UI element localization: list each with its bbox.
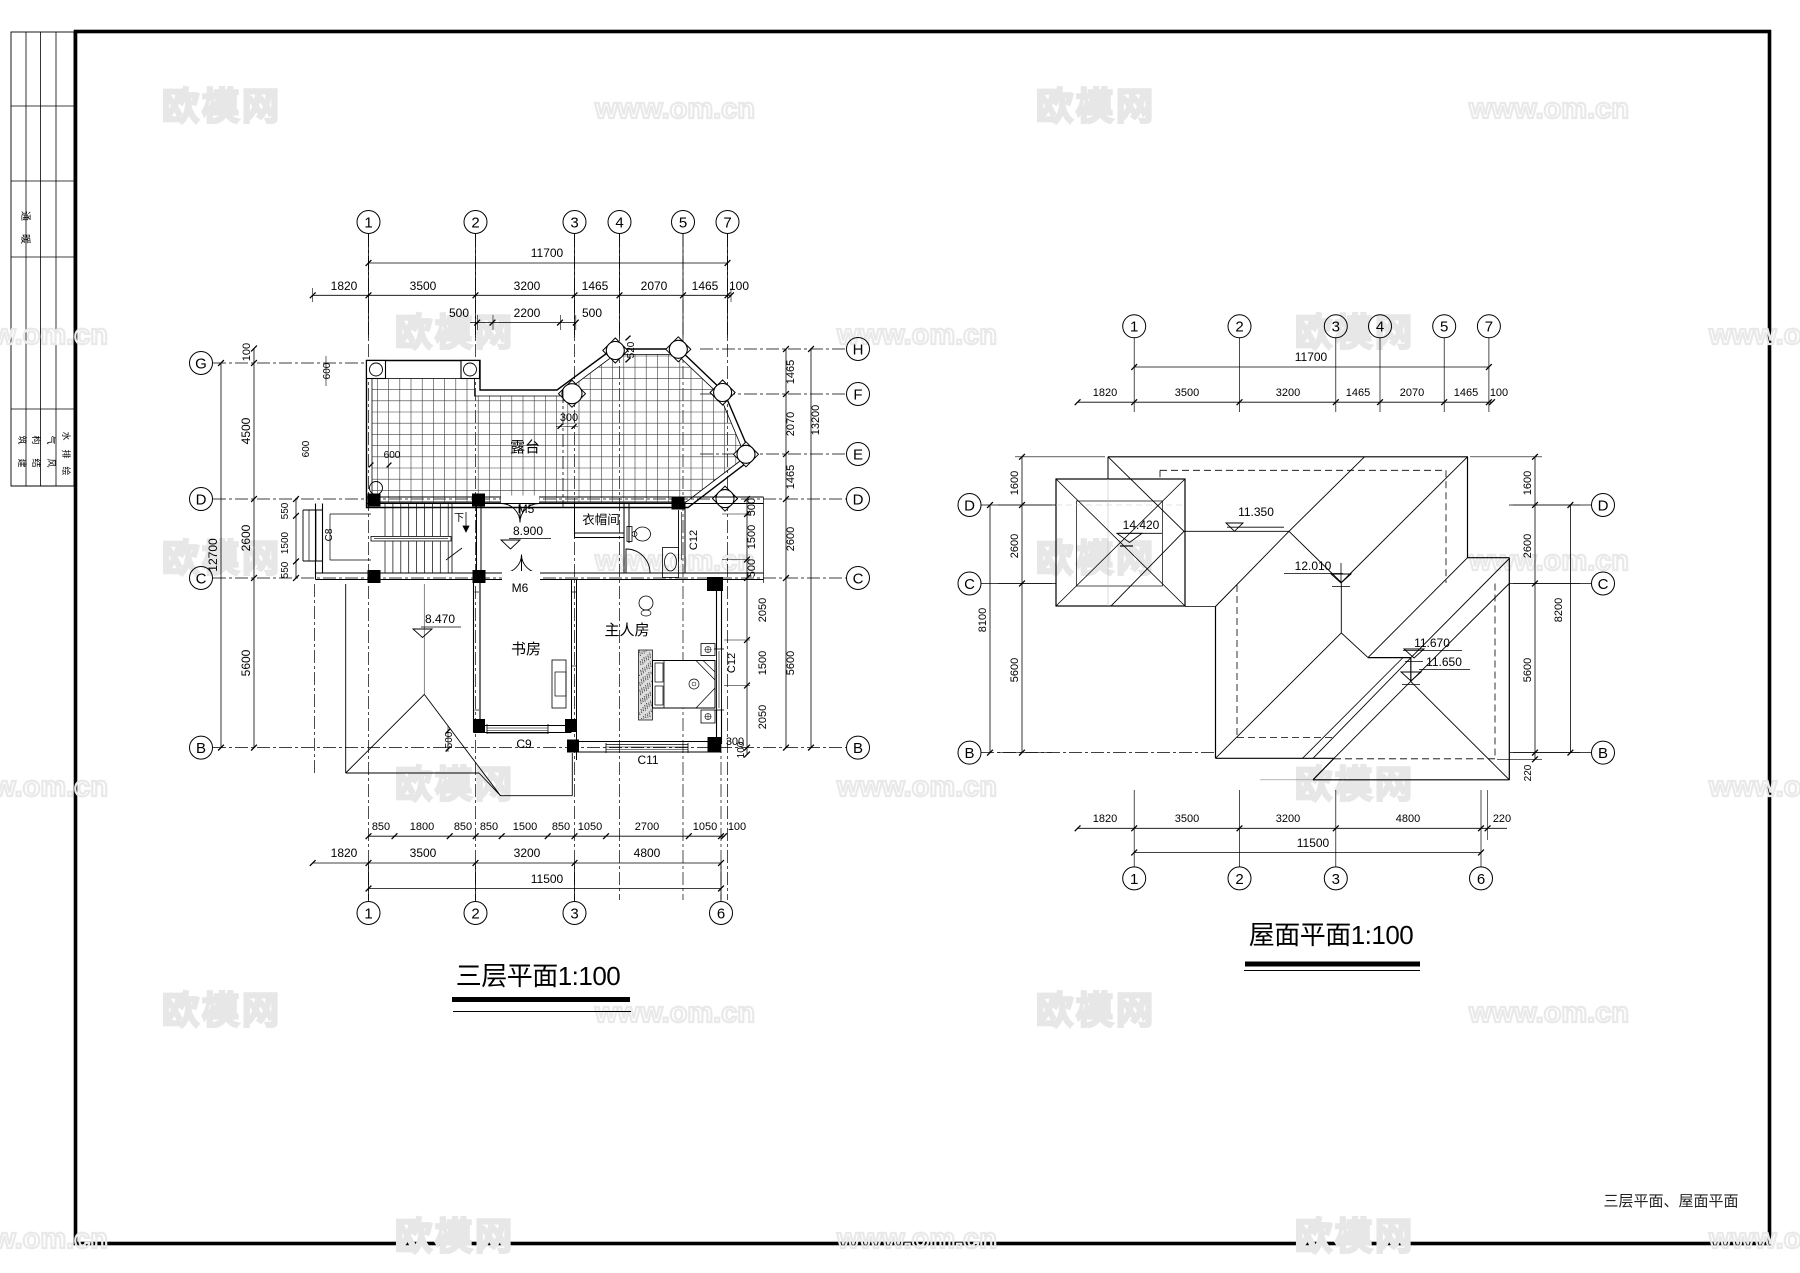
roof grid stub C right (1509, 583, 1591, 585)
bed corner flower (689, 679, 699, 689)
grid line C horizontal (213, 577, 846, 579)
svg-text:三层平面、屋面平面: 三层平面、屋面平面 (1603, 1193, 1738, 1210)
level 8.470 flag (413, 629, 432, 638)
roof mid hip top (1216, 531, 1290, 606)
svg-text:600: 600 (301, 440, 312, 457)
svg-text:欧模网: 欧模网 (1295, 1216, 1415, 1257)
roof grid bubble 2 top (1228, 315, 1251, 338)
roof grid bubble 1 bottom (1123, 867, 1146, 890)
roof dashed low bottom (1334, 758, 1495, 760)
svg-text:1: 1 (1130, 319, 1138, 336)
lower roof bottom eave lower (501, 795, 573, 797)
dim right mid line (785, 349, 787, 748)
grid line 5 vertical (682, 234, 684, 900)
svg-text:1820: 1820 (1093, 387, 1117, 399)
terrace corner post NW (367, 361, 386, 379)
roof dashed tower stub (1159, 470, 1161, 479)
svg-text:屋面平面1:100: 屋面平面1:100 (1249, 920, 1414, 950)
dim total 11700 line (369, 262, 728, 264)
svg-text:5600: 5600 (1009, 658, 1021, 682)
octagon column c (666, 337, 691, 362)
svg-text:2070: 2070 (1400, 387, 1424, 399)
svg-text:www.om.cn: www.om.cn (1708, 319, 1800, 351)
svg-text:2600: 2600 (1522, 534, 1534, 558)
roof dim right inner (1534, 457, 1536, 760)
svg-text:风: 风 (46, 458, 56, 467)
roof top eave (1108, 456, 1468, 458)
svg-text:3500: 3500 (410, 846, 437, 860)
grid line G horizontal (213, 362, 372, 364)
grid stems top left plan (368, 234, 370, 339)
svg-text:1465: 1465 (1454, 387, 1478, 399)
grid bubble F right (847, 383, 870, 406)
svg-text:欧模网: 欧模网 (1036, 86, 1156, 127)
bedroom window C12r (716, 649, 718, 710)
bathroom right wall (684, 504, 686, 574)
svg-text:1600: 1600 (1522, 471, 1534, 495)
dim left inner line (253, 348, 255, 748)
roof right edge lower (1508, 558, 1510, 584)
cloakroom walls (574, 504, 576, 538)
study left wall (473, 580, 475, 733)
title strip col line 3 (55, 32, 57, 486)
roof mid bottom eave (1216, 757, 1335, 759)
grid bubble 1 top (357, 211, 380, 234)
svg-text:4500: 4500 (239, 417, 253, 444)
title roof underline thick (1245, 962, 1420, 967)
roof grid stub B left (981, 752, 1215, 754)
svg-text:G: G (195, 355, 207, 372)
svg-text:C12: C12 (726, 653, 738, 673)
svg-text:绘: 绘 (61, 466, 72, 475)
svg-text:1: 1 (364, 905, 372, 922)
svg-text:100: 100 (241, 343, 253, 361)
svg-text:1050: 1050 (693, 821, 717, 833)
svg-text:3200: 3200 (1276, 813, 1300, 825)
svg-text:4: 4 (615, 214, 623, 231)
roof grid stub B right (1509, 752, 1591, 754)
octagon column a (559, 380, 586, 407)
roof grid bubble 4 top (1369, 315, 1392, 338)
grid line 1 vertical (368, 234, 370, 900)
svg-text:1600: 1600 (1009, 471, 1021, 495)
svg-text:主人房: 主人房 (604, 622, 649, 639)
svg-text:1500: 1500 (746, 525, 758, 549)
terrace step dash line (562, 390, 564, 507)
svg-text:筑: 筑 (17, 435, 28, 444)
roof step top (1468, 557, 1510, 559)
svg-text:气: 气 (46, 435, 57, 444)
svg-text:13200: 13200 (810, 405, 822, 436)
grid bubble 2 top (464, 211, 487, 234)
svg-text:3200: 3200 (1276, 387, 1300, 399)
svg-text:7: 7 (1485, 319, 1493, 336)
roof dim brow1 line (1078, 827, 1507, 829)
svg-text:550: 550 (280, 561, 291, 578)
svg-text:11.670: 11.670 (1414, 636, 1450, 650)
svg-text:220: 220 (1523, 764, 1534, 781)
stair flight risers upper (384, 504, 386, 536)
grid bubble C left (190, 567, 213, 590)
grid bubble 7 top (716, 211, 739, 234)
roof dim row2 line (1078, 401, 1492, 403)
svg-text:8100: 8100 (977, 608, 989, 632)
roof grid bubble C left (958, 572, 981, 595)
grid bubble 4 top (608, 211, 631, 234)
svg-text:1500: 1500 (280, 531, 291, 554)
bedroom dresser top (639, 596, 653, 610)
svg-text:水: 水 (61, 431, 72, 440)
svg-text:2600: 2600 (239, 524, 253, 551)
svg-text:M6: M6 (512, 581, 529, 595)
svg-text:欧模网: 欧模网 (1295, 312, 1415, 353)
svg-text:B: B (853, 740, 863, 757)
column D-3 (672, 497, 685, 510)
svg-text:通: 通 (19, 211, 31, 221)
grid line 3 vertical (574, 234, 576, 900)
svg-text:5: 5 (679, 214, 687, 231)
grid bubble 1 bottom (357, 902, 380, 925)
lower roof hip SE (424, 694, 500, 795)
roof dashed mid bottom (1237, 737, 1333, 739)
svg-text:C: C (1598, 576, 1609, 593)
svg-text:暖: 暖 (19, 234, 32, 244)
title strip bottom line (11, 485, 74, 487)
octagon column f (713, 486, 738, 511)
bathroom door arc (626, 549, 650, 573)
grid line B horizontal (213, 747, 846, 749)
roof right edge upper (1467, 457, 1469, 558)
roof grid stem 2 top (1239, 338, 1241, 412)
svg-text:1500: 1500 (513, 821, 537, 833)
svg-text:3: 3 (1332, 319, 1340, 336)
svg-text:B: B (1598, 745, 1608, 762)
svg-text:www.om.cn: www.om.cn (594, 545, 755, 577)
roof grid bubble 6 bottom (1470, 867, 1493, 890)
title left underline thick (452, 997, 630, 1002)
svg-text:8200: 8200 (1553, 598, 1565, 622)
bay outer line right (763, 497, 765, 583)
svg-text:6: 6 (1477, 871, 1485, 888)
bed inner line (663, 661, 665, 709)
column D-1 (368, 494, 381, 507)
svg-text:欧模网: 欧模网 (395, 764, 515, 805)
svg-text:C: C (196, 570, 207, 587)
svg-text:2600: 2600 (785, 527, 797, 551)
svg-text:1500: 1500 (757, 651, 769, 675)
roof apex hip SE (1411, 681, 1510, 779)
grid line 6 vertical (720, 740, 722, 900)
grid bubble B right (847, 736, 870, 759)
svg-text:www.om.cn: www.om.cn (594, 93, 755, 125)
lower roof left edge (345, 584, 347, 773)
bedroom right wall upper (716, 591, 718, 649)
grid bubble H right (847, 338, 870, 361)
roof grid stem 2 bottom (1239, 790, 1241, 867)
roof grid bubble 5 top (1433, 315, 1456, 338)
title strip row line 4 (11, 408, 74, 410)
wall C opening M6 gap (502, 571, 540, 581)
svg-text:4800: 4800 (1396, 813, 1420, 825)
roof gray under-eave left (1260, 779, 1313, 781)
bedroom right wall lower (716, 710, 718, 738)
roof hip ridge-left-up (1108, 457, 1184, 532)
study window C9 (487, 725, 548, 727)
level 8.900 flag (501, 540, 520, 549)
svg-text:www.om.cn: www.om.cn (836, 771, 997, 803)
bed blanket fold (696, 661, 715, 681)
svg-text:1: 1 (1130, 871, 1138, 888)
svg-text:2600: 2600 (1009, 534, 1021, 558)
roof grid bubble D right (1592, 494, 1615, 517)
svg-text:www.om.cn: www.om.cn (1708, 1223, 1800, 1255)
lower roof right edge (571, 753, 573, 796)
wall D row (367, 496, 764, 498)
stair inner wall line (330, 513, 371, 515)
lower roof bottom eave upper (346, 772, 479, 774)
svg-text:5600: 5600 (1522, 658, 1534, 682)
bedroom window C11 (606, 744, 688, 746)
svg-text:三层平面1:100: 三层平面1:100 (456, 961, 621, 991)
svg-text:600: 600 (384, 450, 401, 461)
roof grid stem 6 bottom (1480, 790, 1482, 867)
svg-text:H: H (853, 341, 864, 358)
svg-text:C11: C11 (637, 753, 658, 767)
roof mid left eave (1215, 607, 1217, 759)
column D-2 (472, 494, 485, 507)
title strip row line 1 (11, 105, 74, 107)
svg-text:11700: 11700 (531, 246, 564, 260)
roof grid bubble 2 bottom (1228, 867, 1251, 890)
title strip outline (11, 32, 74, 486)
bathroom window C12t (678, 510, 680, 562)
svg-text:排: 排 (61, 449, 72, 458)
grid line 2 vertical (475, 234, 477, 900)
study desk (552, 660, 566, 708)
roof right ext lines (1470, 456, 1542, 458)
stair room left wall (315, 504, 317, 580)
svg-text:1465: 1465 (692, 279, 719, 293)
svg-text:100: 100 (729, 279, 749, 293)
roof tower diagonal a (1056, 479, 1185, 606)
grid line D horizontal (213, 498, 846, 500)
dim left total 12700 line (220, 363, 222, 748)
svg-text:3200: 3200 (514, 279, 541, 293)
svg-text:100: 100 (728, 821, 746, 833)
svg-text:3: 3 (570, 905, 578, 922)
svg-text:B: B (196, 740, 206, 757)
svg-text:550: 550 (280, 502, 291, 519)
svg-text:1465: 1465 (582, 279, 609, 293)
svg-text:2: 2 (471, 905, 479, 922)
title strip col line 2 (40, 32, 42, 486)
stair room bottom wall (316, 572, 481, 574)
svg-text:500: 500 (582, 306, 602, 320)
roof grid bubble C right (1592, 572, 1615, 595)
study right wall (571, 580, 573, 726)
svg-text:1050: 1050 (578, 821, 602, 833)
title strip row line 2 (11, 180, 74, 182)
grid bubble D right (847, 488, 870, 511)
roof valley diag to notch (1341, 633, 1368, 658)
svg-text:B: B (964, 745, 974, 762)
svg-text:4800: 4800 (634, 846, 661, 860)
dim bottom row1 line (369, 835, 725, 837)
svg-text:C9: C9 (516, 737, 532, 751)
column study SW (473, 719, 485, 732)
grid line F horizontal (700, 393, 846, 395)
svg-text:2700: 2700 (635, 821, 659, 833)
stair down arrow (465, 512, 467, 530)
dim row3 line (470, 322, 576, 324)
svg-text:100: 100 (1490, 387, 1508, 399)
svg-text:500: 500 (746, 498, 758, 516)
svg-text:11500: 11500 (531, 872, 564, 886)
roof grid bubble 7 top (1477, 315, 1500, 338)
dim bottom row3 line (369, 888, 722, 890)
svg-text:C12: C12 (688, 530, 700, 550)
grid bubble C right (847, 567, 870, 590)
roof grid stub C left (981, 583, 1056, 585)
roof band hip A2 (1303, 658, 1404, 759)
title roof underline thin (1244, 970, 1420, 972)
svg-text:11500: 11500 (1297, 836, 1330, 850)
svg-text:1800: 1800 (410, 821, 434, 833)
grid bubble 2 bottom (464, 902, 487, 925)
svg-text:2200: 2200 (514, 306, 541, 320)
svg-text:5: 5 (1440, 319, 1448, 336)
title left underline thin (453, 1011, 631, 1013)
grid line 7 vertical (727, 234, 729, 900)
svg-text:2: 2 (471, 214, 479, 231)
svg-text:F: F (853, 386, 862, 403)
column bedroom SW (567, 740, 579, 753)
roof grid stem 4 top (1379, 338, 1381, 412)
stair break line (451, 504, 453, 573)
roof grid bubble 3 top (1324, 315, 1347, 338)
roof hip ridge-right-up (1289, 457, 1365, 532)
svg-text:下: 下 (454, 513, 464, 524)
grid bubble B left (190, 736, 213, 759)
svg-text:300: 300 (560, 412, 578, 424)
roof dashed top band (1160, 469, 1446, 471)
svg-text:www.om.cn: www.om.cn (0, 771, 108, 803)
terrace inner wall (372, 355, 742, 503)
roof grid stem 3 top (1335, 338, 1337, 412)
octagon column e (734, 442, 759, 467)
nightstand bottom (701, 710, 715, 723)
svg-text:D: D (196, 491, 207, 508)
svg-text:4: 4 (1376, 319, 1384, 336)
svg-text:850: 850 (372, 821, 390, 833)
svg-text:300: 300 (726, 736, 744, 748)
svg-text:6: 6 (717, 905, 725, 922)
roof grid bubble 1 top (1123, 315, 1146, 338)
roof hip ridge-left-down (1111, 531, 1184, 606)
svg-text:5600: 5600 (239, 649, 253, 676)
svg-text:850: 850 (552, 821, 570, 833)
roof notch eave 11.670 (1368, 657, 1411, 659)
grid stems bottom left plan (368, 862, 370, 902)
svg-text:www.om.cn: www.om.cn (1708, 771, 1800, 803)
roof tower connector (1185, 606, 1216, 608)
roof band hip A (1368, 558, 1468, 658)
dim right inner line (746, 499, 748, 755)
bed headboard hatch (639, 650, 653, 720)
column C-1 (368, 570, 381, 583)
svg-text:欧模网: 欧模网 (162, 990, 282, 1031)
grid bubble D left (190, 488, 213, 511)
svg-text:11.350: 11.350 (1238, 505, 1274, 519)
dim right outer line (810, 349, 812, 748)
lower roof step diagonal (479, 773, 501, 796)
column bedroom SE (708, 737, 722, 752)
corridor west wall (476, 504, 478, 574)
roof dim 11700 line (1134, 366, 1489, 368)
svg-text:书房: 书房 (511, 641, 541, 658)
door M5 leaf arcs (501, 504, 520, 523)
roof dashed low right (1494, 584, 1496, 759)
svg-text:欧模网: 欧模网 (1036, 538, 1156, 579)
svg-text:www.om.cn: www.om.cn (1468, 997, 1629, 1029)
column study SE (565, 719, 577, 732)
octagon column b (603, 338, 628, 363)
roof grid stub D left (981, 504, 1056, 506)
svg-text:3500: 3500 (1175, 387, 1199, 399)
svg-text:12700: 12700 (206, 538, 220, 572)
bedroom bottom wall (572, 741, 722, 743)
roof long hip NE (1341, 457, 1467, 583)
svg-text:11700: 11700 (1295, 350, 1328, 364)
study bottom wall (474, 725, 572, 727)
wall C row (480, 572, 764, 574)
roof dim left inner (1021, 457, 1023, 753)
svg-text:www.om.cn: www.om.cn (0, 319, 108, 351)
svg-text:11.650: 11.650 (1426, 655, 1462, 669)
roof valley vertical 12.010 (1340, 583, 1342, 633)
terrace corner post SW (370, 482, 383, 495)
svg-text:3: 3 (570, 214, 578, 231)
terrace tile grid (350, 340, 760, 512)
svg-text:220: 220 (1493, 813, 1511, 825)
roof left ext lines (1015, 456, 1105, 458)
stair handrail (371, 537, 451, 542)
grid line 4 vertical (619, 234, 621, 900)
bed pillows (655, 663, 663, 682)
svg-text:2070: 2070 (785, 412, 797, 436)
svg-text:8.470: 8.470 (425, 612, 455, 626)
column C-2 (473, 570, 486, 583)
roof grid bubble 3 bottom (1324, 867, 1347, 890)
roof dim right outer (1569, 505, 1571, 753)
svg-text:露台: 露台 (510, 439, 540, 456)
svg-text:E: E (853, 446, 863, 463)
dim extension stubs top (312, 288, 314, 302)
roof apex hip SW (1334, 681, 1411, 758)
bathroom toilet (635, 527, 651, 541)
svg-text:12.010: 12.010 (1295, 559, 1332, 573)
roof dim ext 220 (1487, 790, 1489, 840)
roof dim brow2 line (1134, 852, 1481, 854)
grid bubble 3 top (563, 211, 586, 234)
roof hip ridge-right-down (1289, 531, 1341, 582)
roof apex leader 11.650 (1410, 658, 1412, 681)
svg-text:2070: 2070 (641, 279, 668, 293)
lower roof centerline (313, 584, 315, 773)
svg-text:3500: 3500 (1175, 813, 1199, 825)
svg-text:3: 3 (1332, 871, 1340, 888)
roof grid bubble B left (958, 741, 981, 764)
